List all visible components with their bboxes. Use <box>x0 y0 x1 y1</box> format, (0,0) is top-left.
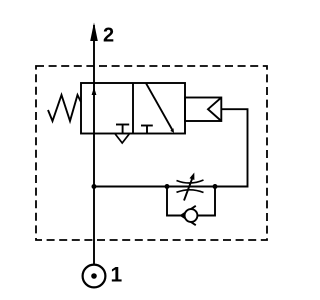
svg-text:1: 1 <box>111 264 123 287</box>
svg-text:2: 2 <box>103 25 114 47</box>
